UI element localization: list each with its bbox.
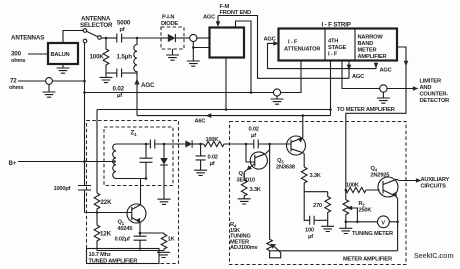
ground below 0.02uf bbox=[194, 170, 207, 175]
balun T1 box bbox=[48, 43, 78, 64]
ground below R2 bbox=[339, 222, 352, 234]
capacitor 0.02uf to ground bbox=[196, 144, 206, 170]
svg-text:AGC: AGC bbox=[203, 15, 215, 21]
resistor 3.3K (Q2 emitter) bbox=[241, 180, 247, 199]
svg-text:BAND: BAND bbox=[358, 41, 374, 47]
node B+ / coil tap bbox=[113, 160, 116, 163]
R4 wiper arrow bbox=[270, 244, 281, 258]
svg-text:TUNING METER: TUNING METER bbox=[352, 231, 393, 237]
tank bottom line bbox=[116, 178, 146, 180]
meter amp bottom rail bbox=[270, 250, 398, 252]
svg-text:BALUN: BALUN bbox=[51, 52, 70, 58]
label NARROW BAND METER AMPLIFIER bbox=[358, 35, 387, 61]
label 0.02 uf bbox=[113, 86, 125, 99]
resistor 3.3K (Q3 collector) bbox=[301, 167, 307, 192]
Z1 tank dashed box bbox=[104, 127, 173, 186]
svg-text:B+: B+ bbox=[9, 160, 17, 167]
svg-text:DETECTOR: DETECTOR bbox=[420, 98, 450, 104]
node riser/IF line bbox=[329, 108, 332, 111]
node on IF line bbox=[225, 108, 228, 111]
transistor Q1 40245 bbox=[127, 179, 146, 234]
I-F strip box bbox=[279, 29, 398, 61]
emitter node line to 1K bbox=[140, 232, 164, 234]
resistor 100K (Q4 base) bbox=[346, 187, 380, 192]
ground on rail bbox=[157, 252, 170, 257]
diode D3 to meter amplifier bbox=[185, 140, 203, 147]
svg-text:12K: 12K bbox=[100, 231, 112, 238]
wire 300-ohm input to balun bbox=[28, 53, 48, 55]
tuned amplifier label box bbox=[87, 249, 160, 264]
AGC wire into front end top with arrowhead bbox=[216, 16, 221, 28]
long AGC line to front end bbox=[137, 115, 331, 117]
wire 72-ohm input bbox=[18, 80, 85, 82]
svg-text:V: V bbox=[381, 220, 385, 226]
svg-text:Q2: Q2 bbox=[239, 171, 246, 177]
label 10.7 Mhz TUNED AMPLIFIER bbox=[89, 252, 138, 264]
resistor 1K bbox=[161, 233, 167, 251]
svg-text:100K: 100K bbox=[346, 183, 360, 189]
10.7 Mhz tuned amplifier dashed box bbox=[87, 121, 179, 264]
ground below P-I-N box bbox=[166, 49, 179, 60]
node emitter bbox=[139, 232, 142, 235]
svg-text:ohms: ohms bbox=[11, 58, 25, 64]
node B+ bus join bbox=[83, 91, 86, 94]
connector circle at FM front end input bbox=[190, 34, 197, 41]
svg-text:3.3K: 3.3K bbox=[310, 173, 322, 179]
svg-text:TUNED AMPLIFIER: TUNED AMPLIFIER bbox=[89, 258, 138, 264]
ground below 270/100uf bbox=[321, 220, 334, 231]
svg-text:270: 270 bbox=[313, 203, 322, 209]
label 72 ohms bbox=[9, 78, 23, 92]
svg-text:40245: 40245 bbox=[118, 226, 133, 232]
label Q2 SE4010 bbox=[237, 171, 255, 184]
arrowhead into attenuator bbox=[273, 41, 279, 46]
node 100K/cap junction bbox=[199, 143, 202, 146]
wire FM front end B+ over-the-top bbox=[236, 21, 252, 93]
label F-M FRONT END bbox=[220, 4, 251, 16]
collector node line bbox=[304, 191, 328, 193]
resistor 12K bbox=[94, 225, 100, 251]
wire Q2 base bbox=[246, 144, 255, 162]
potentiometer R2 250K bbox=[343, 200, 349, 222]
node bias/column bbox=[96, 211, 99, 214]
label R4 15K TUNING METER ADJ100mv bbox=[230, 222, 259, 251]
svg-text:P-I-N: P-I-N bbox=[162, 15, 174, 21]
capacitor 1000pf bbox=[78, 186, 91, 213]
potentiometer R4 15K bbox=[267, 144, 273, 251]
svg-text:METER: METER bbox=[358, 48, 377, 54]
wire bottom of 100K to 0.02 cap bbox=[106, 72, 117, 74]
svg-text:μf: μf bbox=[117, 93, 122, 99]
label I-F ATTENUATOR bbox=[284, 40, 320, 53]
transistor Q4 2N2925 bbox=[378, 177, 399, 251]
F-M front end box bbox=[210, 28, 245, 58]
connector circle on limiter line bbox=[380, 85, 387, 92]
svg-text:AUXILIARY: AUXILIARY bbox=[421, 177, 450, 183]
label R2 250K bbox=[359, 201, 373, 214]
IF output line to tuned amplifier bbox=[97, 109, 331, 111]
capacitor 0.02uf emitter bypass bbox=[134, 233, 147, 251]
main RF line from switch bbox=[101, 37, 117, 39]
node varactor top bbox=[163, 143, 166, 146]
node emitter/meter bbox=[396, 221, 399, 224]
svg-text:I - F: I - F bbox=[328, 52, 338, 58]
ground stem of input connector bbox=[187, 42, 210, 67]
svg-text:METER AMPLIFIER: METER AMPLIFIER bbox=[343, 257, 392, 263]
wire circle to FM box bbox=[197, 37, 210, 39]
svg-text:72: 72 bbox=[10, 78, 17, 85]
node Q3 emitter to AGC line bbox=[302, 114, 305, 117]
AGC wire from narrow-band amp to attenuator bbox=[268, 43, 377, 68]
svg-text:AMPLIFIER: AMPLIFIER bbox=[358, 54, 387, 60]
base bias line to Q1 bbox=[85, 212, 132, 214]
svg-text:1000pf: 1000pf bbox=[54, 186, 71, 192]
svg-text:3.3K: 3.3K bbox=[250, 187, 262, 193]
R2 wiper arrow bbox=[347, 206, 358, 222]
svg-text:I - F: I - F bbox=[288, 40, 298, 46]
svg-text:ANTENNAS: ANTENNAS bbox=[11, 35, 44, 42]
node tank bottom bbox=[145, 177, 148, 180]
tuned amp ground rail bbox=[97, 250, 164, 252]
svg-text:22K: 22K bbox=[101, 199, 113, 206]
left arrowhead on AGC line bbox=[206, 113, 212, 118]
svg-text:Q4: Q4 bbox=[371, 166, 378, 172]
svg-text:NARROW: NARROW bbox=[358, 35, 384, 41]
svg-text:0.02μf: 0.02μf bbox=[115, 237, 131, 243]
meter amplifier dashed box bbox=[230, 122, 407, 265]
svg-text:ATTENUATOR: ATTENUATOR bbox=[284, 47, 320, 53]
svg-text:TO METER AMPLIFIER: TO METER AMPLIFIER bbox=[337, 107, 395, 113]
node at 100K tap bbox=[105, 37, 108, 40]
label 0.02 uf bbox=[208, 155, 218, 168]
svg-text:250K: 250K bbox=[359, 208, 373, 214]
ground below balun bbox=[57, 64, 70, 73]
svg-text:2N2925: 2N2925 bbox=[371, 173, 390, 179]
svg-text:A6C: A6C bbox=[195, 119, 206, 125]
svg-text:ADJ100mv: ADJ100mv bbox=[230, 245, 259, 251]
svg-text:COUNTER-: COUNTER- bbox=[420, 92, 449, 98]
svg-text:Q3: Q3 bbox=[277, 158, 284, 164]
node at inductor tap bbox=[136, 37, 139, 40]
svg-text:DIODE: DIODE bbox=[161, 21, 178, 27]
svg-text:Q1: Q1 bbox=[118, 220, 125, 226]
svg-text:AND: AND bbox=[420, 85, 432, 91]
arrowhead auxiliary bbox=[416, 178, 422, 183]
svg-text:1.5μh: 1.5μh bbox=[117, 54, 133, 61]
varactor diode D2 bbox=[160, 144, 168, 199]
AGC feed wire down from attenuator node bbox=[136, 73, 138, 116]
node 72-ohm join bbox=[83, 80, 86, 83]
resistor 100K (antenna attenuator) bbox=[103, 38, 109, 73]
ground below Q2 emitter resistor bbox=[238, 199, 251, 204]
AGC routing wire from 4th stage to front end bbox=[218, 16, 349, 79]
wire narrow-band amp to meter amplifier bbox=[346, 47, 406, 200]
B+ supply line bbox=[18, 161, 115, 163]
node Q2 base tap bbox=[245, 143, 248, 146]
ground below bus connector bbox=[271, 96, 284, 104]
svg-text:SELECTOR: SELECTOR bbox=[80, 22, 113, 29]
transistor Q3 2N3638 bbox=[287, 116, 306, 167]
svg-text:100K: 100K bbox=[206, 137, 220, 143]
svg-text:I - F STRIP: I - F STRIP bbox=[322, 22, 351, 29]
I-F strip section dividers bbox=[325, 29, 355, 61]
limiter output line bbox=[342, 61, 413, 89]
svg-text:μf: μf bbox=[210, 161, 215, 167]
node pot bottom bbox=[345, 221, 348, 224]
tank inductor L2 bbox=[113, 144, 116, 178]
svg-text:SeekIC.com: SeekIC.com bbox=[414, 253, 454, 260]
svg-text:100: 100 bbox=[305, 228, 314, 234]
meter line to tuning meter bbox=[346, 221, 378, 223]
connector circle on 72-ohm line bbox=[46, 78, 53, 85]
long vertical wire from switch through B+ to 1000pf bbox=[84, 43, 86, 185]
wire meter to emitter bbox=[389, 221, 397, 223]
svg-text:AGC: AGC bbox=[380, 68, 392, 74]
svg-text:2N3638: 2N3638 bbox=[276, 165, 295, 171]
label 0.02 uf (interstage) bbox=[249, 127, 259, 140]
svg-text:μf: μf bbox=[251, 133, 256, 139]
label 300 ohms bbox=[11, 51, 25, 65]
svg-text:100K: 100K bbox=[90, 54, 105, 61]
series capacitor 0.02uf (interstage) bbox=[246, 140, 291, 149]
arrowhead on narrow-band AGC stub bbox=[374, 63, 379, 69]
resistor 270 bbox=[325, 192, 331, 221]
capacitor 0.02 uf (series AGC) bbox=[117, 69, 137, 78]
svg-text:4TH: 4TH bbox=[328, 39, 338, 45]
antenna selector switch S1 bbox=[83, 29, 101, 43]
node meter feed / 100K bbox=[345, 189, 348, 192]
node tank cap left bbox=[145, 143, 148, 146]
wire FM front end bottom output bbox=[225, 58, 227, 110]
svg-text:F-M: F-M bbox=[220, 4, 230, 10]
diode CR1 (P-I-N) bbox=[161, 34, 190, 42]
ground below limiter connector bbox=[377, 92, 390, 103]
svg-text:5000: 5000 bbox=[117, 20, 131, 27]
resistor 100K (series) bbox=[204, 141, 246, 146]
node on B+ bus bbox=[250, 91, 253, 94]
label 100 uf bbox=[305, 228, 314, 241]
transistor Q2 SE4010 bbox=[244, 144, 269, 180]
label 5000 pf bbox=[117, 20, 131, 33]
label Q4 2N2925 bbox=[371, 166, 390, 179]
label Q1 40245 bbox=[118, 220, 133, 233]
label P-I-N DIODE bbox=[161, 15, 178, 28]
node Q2 collector junction bbox=[268, 143, 271, 146]
wire from IF line down to 22K column bbox=[96, 110, 98, 194]
svg-text:CIRCUITS: CIRCUITS bbox=[421, 183, 447, 189]
ground below 72-ohm connector bbox=[43, 84, 56, 97]
svg-text:AGC: AGC bbox=[352, 74, 364, 80]
ground below varactor bbox=[158, 199, 171, 204]
capacitor 5000 pf bbox=[117, 34, 161, 43]
svg-text:300: 300 bbox=[11, 51, 22, 58]
tank top line bbox=[116, 143, 185, 145]
svg-text:0.02: 0.02 bbox=[208, 155, 218, 161]
node wiper/meter line bbox=[356, 221, 359, 224]
resistor 22K bbox=[94, 193, 100, 225]
inductor 1.5 uh bbox=[134, 38, 137, 73]
label Q3 2N3638 bbox=[276, 158, 295, 171]
arrowhead to limiter bbox=[413, 86, 419, 91]
B+ bus line bbox=[85, 61, 302, 93]
AGC up arrowhead bbox=[134, 79, 139, 85]
wire balun to switch throw 1 bbox=[63, 31, 83, 44]
arrowhead down on meter feed bbox=[404, 61, 409, 67]
svg-text:0.02: 0.02 bbox=[249, 127, 259, 133]
tank tuning capacitor plates bbox=[150, 140, 154, 149]
svg-text:μf: μf bbox=[308, 234, 313, 240]
label LIMITER AND COUNTER-DETECTOR bbox=[420, 79, 450, 105]
P-I-N diode dashed box bbox=[161, 27, 184, 49]
svg-text:ohms: ohms bbox=[9, 85, 23, 91]
svg-text:LIMITER: LIMITER bbox=[420, 79, 441, 85]
svg-text:1K: 1K bbox=[168, 237, 176, 243]
svg-text:AGC: AGC bbox=[141, 82, 155, 89]
wire collector to auxiliary circuits bbox=[399, 180, 416, 182]
svg-text:0.02: 0.02 bbox=[113, 86, 125, 93]
AGC stub from 4th-stage I-F bottom bbox=[347, 61, 352, 79]
tank fixed capacitor bbox=[140, 144, 153, 179]
label AUXILIARY CIRCUITS bbox=[421, 177, 450, 189]
ground at 100K bottom bbox=[100, 73, 113, 83]
svg-text:R2: R2 bbox=[359, 201, 366, 207]
riser from 4th stage to IF/AGC lines bbox=[330, 61, 332, 116]
capacitor 100uf leg bbox=[304, 192, 328, 225]
svg-text:10.7 Mhz: 10.7 Mhz bbox=[89, 252, 111, 258]
svg-text:pf: pf bbox=[120, 27, 125, 33]
label 4TH STAGE I-F bbox=[328, 39, 347, 58]
bypass connector circle on bus bbox=[273, 89, 280, 96]
node B+ / riser bbox=[83, 160, 86, 163]
svg-text:AGC: AGC bbox=[264, 37, 276, 43]
label ANTENNA SELECTOR bbox=[80, 16, 113, 30]
svg-text:STAGE: STAGE bbox=[328, 45, 347, 51]
tuning meter M1 bbox=[378, 216, 390, 228]
